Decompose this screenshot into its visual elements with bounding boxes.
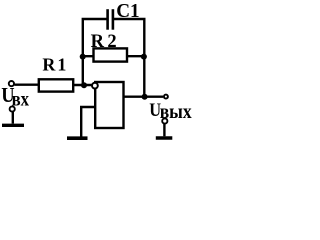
- svg-text:R1: R1: [42, 55, 66, 75]
- svg-text:R2: R2: [91, 32, 117, 52]
- svg-text:вых: вых: [160, 101, 192, 123]
- svg-text:вх: вх: [12, 88, 29, 109]
- svg-text:C1: C1: [116, 0, 139, 22]
